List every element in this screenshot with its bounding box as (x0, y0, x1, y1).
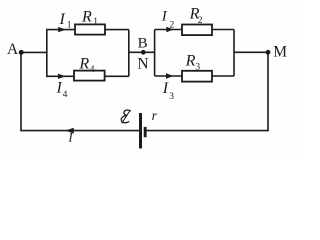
resistor R3 (182, 71, 212, 82)
wire right block bottom branch (155, 75, 234, 77)
svg-text:I: I (162, 80, 169, 97)
svg-text:I: I (161, 9, 168, 25)
wire right block to M (234, 51, 268, 53)
svg-text:N: N (137, 56, 148, 73)
wire bottom rail right (battery to M branch) (146, 130, 269, 132)
current arrow I3 (right) (166, 73, 174, 78)
svg-text:1: 1 (93, 17, 98, 27)
wire M down to bottom rail (267, 52, 269, 130)
svg-text:2: 2 (170, 20, 175, 30)
svg-text:I: I (59, 11, 66, 28)
svg-text:2: 2 (198, 16, 203, 26)
current arrow I4 (right) (58, 74, 66, 79)
svg-text:3: 3 (169, 92, 174, 102)
current arrow I1 (right) (58, 27, 66, 32)
svg-text:4: 4 (63, 90, 68, 100)
svg-text:M: M (273, 43, 287, 60)
current arrow I2 (right) (166, 27, 174, 32)
node A junction dot (19, 50, 24, 55)
svg-text:R: R (81, 8, 92, 25)
wire left block right vertical (128, 30, 130, 77)
node B/N junction dot (141, 50, 146, 55)
wire A to left parallel block (21, 51, 47, 53)
wire bottom rail left (to battery) (20, 130, 139, 132)
svg-text:A: A (7, 41, 19, 58)
svg-text:R: R (78, 56, 89, 73)
wire left block left vertical (46, 30, 48, 77)
resistor R1 (75, 24, 105, 34)
svg-text:3: 3 (195, 63, 200, 73)
svg-text:I: I (67, 130, 73, 145)
svg-text:4: 4 (90, 65, 95, 75)
wire A down to bottom rail (20, 52, 22, 130)
wire node B to right parallel block (129, 51, 155, 53)
wire right block right vertical (233, 30, 235, 77)
svg-text:r: r (152, 108, 158, 123)
battery cell short plate (negative) (144, 127, 147, 137)
resistor R2 (182, 25, 212, 36)
node M junction dot (266, 50, 271, 55)
wire left block bottom branch (46, 75, 129, 77)
resistor R4 (74, 71, 105, 81)
svg-text:B: B (138, 36, 148, 52)
svg-text:1: 1 (67, 21, 72, 31)
wire right block top branch (155, 29, 234, 31)
svg-text:R: R (185, 52, 196, 69)
wire left block top branch (46, 29, 129, 31)
label EMF script-E (121, 110, 130, 123)
svg-text:I: I (56, 80, 63, 97)
current arrow I on bottom rail (left) (65, 128, 74, 134)
wire right block left vertical (154, 30, 156, 77)
battery cell long plate (positive) (139, 113, 142, 148)
